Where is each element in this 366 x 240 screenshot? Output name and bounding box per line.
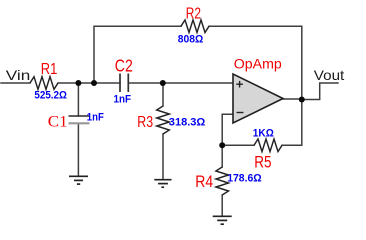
svg-text:R4: R4 bbox=[195, 173, 213, 191]
svg-text:1nF: 1nF bbox=[114, 94, 132, 106]
svg-text:OpAmp: OpAmp bbox=[234, 57, 282, 72]
svg-text:1KΩ: 1KΩ bbox=[253, 127, 274, 139]
svg-text:318.3Ω: 318.3Ω bbox=[169, 116, 206, 128]
svg-text:178.6Ω: 178.6Ω bbox=[227, 173, 262, 185]
svg-text:525.2Ω: 525.2Ω bbox=[34, 90, 67, 102]
svg-text:1nF: 1nF bbox=[87, 112, 104, 124]
svg-text:R1: R1 bbox=[41, 61, 58, 78]
svg-text:R2: R2 bbox=[186, 5, 201, 22]
svg-text:C2: C2 bbox=[115, 55, 133, 75]
svg-text:Vout: Vout bbox=[314, 67, 345, 83]
svg-text:808Ω: 808Ω bbox=[178, 34, 204, 46]
svg-text:R5: R5 bbox=[254, 153, 271, 171]
svg-text:R3: R3 bbox=[137, 114, 153, 131]
svg-text:Vin: Vin bbox=[6, 67, 31, 83]
svg-text:C1: C1 bbox=[48, 113, 68, 130]
